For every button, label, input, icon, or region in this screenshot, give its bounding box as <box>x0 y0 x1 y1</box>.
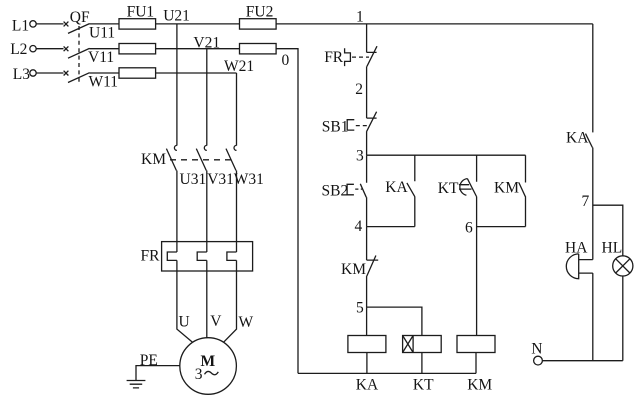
svg-text:U11: U11 <box>89 25 115 42</box>
wire 0 line <box>276 49 298 374</box>
svg-text:KM: KM <box>341 261 366 278</box>
svg-text:3: 3 <box>195 366 203 383</box>
svg-text:U: U <box>179 314 190 331</box>
terminal N <box>531 341 542 366</box>
svg-text:W11: W11 <box>89 73 119 90</box>
svg-text:U31: U31 <box>180 171 207 188</box>
wire V31 <box>206 171 208 253</box>
contactor KM main contact 2 <box>196 145 207 170</box>
svg-text:PE: PE <box>140 352 158 369</box>
svg-text:3: 3 <box>356 147 364 164</box>
terminal L3 <box>13 66 36 83</box>
ground <box>127 381 146 388</box>
svg-text:N: N <box>531 341 542 358</box>
svg-text:QF: QF <box>70 9 90 26</box>
wire node1 horizontal <box>276 23 593 25</box>
wire W31 <box>236 171 238 253</box>
KA NO contact branch <box>407 155 415 226</box>
FR actuator symbol <box>345 48 351 66</box>
svg-text:KM: KM <box>141 151 166 168</box>
svg-text:L2: L2 <box>10 41 27 58</box>
SB1 button cap <box>347 120 354 130</box>
svg-text:V: V <box>210 313 222 330</box>
fuse FU1 pole 3 <box>119 68 156 78</box>
svg-text:KM: KM <box>467 377 492 394</box>
SB2 button cap <box>347 184 354 195</box>
wire HL down <box>622 276 624 361</box>
svg-text:V11: V11 <box>88 49 114 66</box>
terminal L1 <box>12 17 36 34</box>
wire L2 to QF <box>36 48 63 50</box>
contactor KM main contact 1 <box>166 145 177 170</box>
wire L3 FU1 to W21 <box>156 72 237 74</box>
wire U to motor <box>177 260 193 342</box>
SB1 NC contact <box>366 112 376 132</box>
wire W21 drop <box>236 73 238 146</box>
wire L1 FU1 to FU2 <box>156 23 240 25</box>
motor tilde <box>205 371 219 374</box>
coil KM drop <box>475 353 477 374</box>
svg-text:M: M <box>201 353 216 370</box>
thermal relay FR box <box>162 242 253 271</box>
node 5 wire <box>367 307 422 335</box>
N wire <box>542 360 622 362</box>
svg-text:KT: KT <box>438 180 459 197</box>
KA NO contact right <box>586 134 593 260</box>
KT delayed NO contact <box>467 155 476 335</box>
buzzer HA <box>566 254 593 279</box>
svg-text:KA: KA <box>566 130 589 147</box>
breaker QF pole 3 <box>64 71 90 83</box>
wire U21 drop <box>176 24 178 146</box>
svg-text:L3: L3 <box>13 66 30 83</box>
svg-text:KA: KA <box>356 377 379 394</box>
svg-text:1: 1 <box>356 9 364 26</box>
FR heater element 2 <box>197 252 207 260</box>
wire W to motor <box>224 260 237 342</box>
wire PE <box>136 366 180 381</box>
node 4 wire <box>367 226 415 228</box>
svg-text:L1: L1 <box>12 17 29 34</box>
svg-text:V31: V31 <box>207 171 234 188</box>
svg-text:W: W <box>239 314 254 331</box>
SB2 NO contact <box>360 155 366 226</box>
wire HA down <box>592 273 594 361</box>
fuse FU1 pole 1 <box>119 19 156 29</box>
wire U31 <box>176 171 178 253</box>
coil KM <box>457 336 495 353</box>
wire V21 drop <box>206 49 208 146</box>
svg-text:FR: FR <box>324 49 344 66</box>
bottom rail <box>298 372 476 374</box>
SB1 dashes <box>356 125 368 127</box>
node 6 wire <box>477 226 526 228</box>
node 3 bus <box>367 154 526 156</box>
contactor KM linkage <box>170 159 232 161</box>
KM NC contact <box>366 227 378 308</box>
svg-text:6: 6 <box>465 220 473 237</box>
svg-text:HL: HL <box>602 240 623 257</box>
breaker QF linkage <box>78 26 80 85</box>
KT delay arc <box>459 179 472 196</box>
svg-text:7: 7 <box>582 193 590 210</box>
svg-text:FR: FR <box>141 248 161 265</box>
svg-text:SB2: SB2 <box>322 182 349 199</box>
svg-text:W21: W21 <box>224 58 254 75</box>
svg-text:FU1: FU1 <box>127 3 155 20</box>
wire V to motor <box>206 260 208 337</box>
wire L2 FU1 to FU2 <box>156 48 240 50</box>
node 7 branch <box>593 205 623 256</box>
svg-text:HA: HA <box>565 240 588 257</box>
right rail upper <box>592 24 594 132</box>
svg-text:2: 2 <box>355 81 363 98</box>
svg-text:KA: KA <box>385 179 408 196</box>
coil KT drop <box>421 353 423 374</box>
FR heater element 1 <box>167 252 177 260</box>
svg-text:SB1: SB1 <box>322 119 349 136</box>
contactor KM main contact 3 <box>226 145 237 170</box>
wire L1 QF to FU1 <box>90 23 120 25</box>
FR heater element 3 <box>227 252 237 260</box>
wire node 2 <box>366 66 368 118</box>
motor M <box>180 338 237 395</box>
fuse FU1 pole 2 <box>119 44 156 54</box>
svg-text:W31: W31 <box>234 171 264 188</box>
svg-text:0: 0 <box>282 52 290 69</box>
lamp HL <box>613 256 633 276</box>
wire to node 3 <box>366 132 368 155</box>
FR NC contact <box>367 46 377 66</box>
breaker QF pole 2 <box>64 46 90 58</box>
KM NO contact branch <box>519 155 526 226</box>
wire L1 to QF <box>36 23 63 25</box>
svg-text:U21: U21 <box>163 7 190 24</box>
SB2 dashes <box>355 188 362 190</box>
coil KT <box>403 336 442 353</box>
FR actuator dashes <box>352 56 369 58</box>
breaker QF pole 1 <box>64 22 90 34</box>
wire node5 to KA coil <box>366 307 368 335</box>
wire L2 QF to FU1 <box>90 48 120 50</box>
coil KA <box>348 336 386 353</box>
wire L3 QF to FU1 <box>90 72 120 74</box>
wire L3 to QF <box>36 72 63 74</box>
wire control rail top <box>366 24 368 53</box>
terminal L2 <box>10 41 36 58</box>
svg-text:4: 4 <box>355 218 363 235</box>
svg-text:5: 5 <box>356 300 364 317</box>
svg-text:KT: KT <box>413 377 434 394</box>
fuse FU2 upper <box>240 19 277 29</box>
svg-text:FU2: FU2 <box>246 4 274 21</box>
svg-text:KM: KM <box>494 180 519 197</box>
fuse FU2 lower <box>240 44 277 54</box>
coil KA drop <box>366 353 368 374</box>
